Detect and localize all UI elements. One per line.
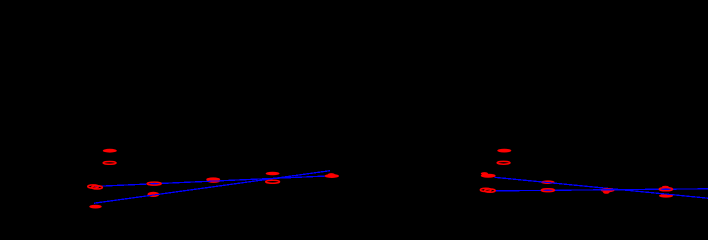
left panel shallow blue fit line [95, 176, 327, 186]
left panel legend open marker [103, 162, 116, 165]
line B overlay over left point x2 filled marker [146, 194, 161, 196]
right panel legend filled marker [497, 149, 511, 153]
left point x5 filled marker [325, 174, 339, 178]
left point x1 open marker a [88, 185, 99, 188]
right panel legend open marker [497, 161, 510, 164]
right point x4 open marker [659, 188, 672, 191]
steep line overlay over right point x2 filled marker [540, 182, 556, 184]
right point x4 filled marker [659, 194, 673, 198]
right point x2 filled marker [541, 180, 555, 184]
right point x3 filled bump marker [603, 191, 610, 194]
right point x1 open marker b [485, 189, 496, 192]
flat line overlay over right point x3 marker [600, 189, 615, 191]
right panel steep blue fit line [495, 177, 708, 198]
right panel flat blue fit line [494, 189, 708, 191]
left point x5 open bump marker [328, 173, 335, 176]
right point x3 filled marker [601, 188, 615, 192]
left point x4 open marker [266, 180, 280, 183]
left point x2 open marker [147, 182, 161, 185]
steep line overlay over right point x4 filled marker [658, 193, 674, 195]
left point x1 open marker b [92, 186, 103, 189]
right point x4 open bump marker [662, 186, 669, 188]
left point x1 filled marker [89, 205, 101, 209]
left point x2 filled marker [148, 192, 160, 197]
left panel steep blue fit line [94, 171, 330, 204]
right point x1 filled bump marker [481, 172, 488, 175]
line A overlay over left point x3 marker [205, 180, 222, 183]
left panel legend filled marker [103, 149, 117, 153]
left point x4 filled marker [266, 172, 280, 176]
left point x3 filled marker upper [206, 177, 220, 181]
right point x2 open marker [541, 189, 554, 192]
right point x1 filled marker [481, 174, 496, 178]
right point x1 open marker a [480, 188, 491, 191]
left point x3 filled marker lower [207, 179, 220, 183]
